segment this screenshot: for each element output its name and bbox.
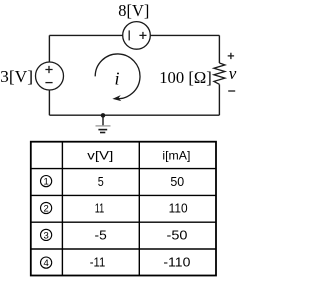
row marker circled 1 [41,176,52,188]
table column divider 1 [61,142,63,276]
table outer border [31,142,216,276]
svg-text:5: 5 [98,174,104,189]
label 3[V] [0,67,33,86]
svg-text:-110: -110 [163,254,190,269]
svg-text:-50: -50 [167,228,188,243]
polarity minus (resistor) [228,90,235,92]
svg-text:11: 11 [95,201,105,216]
cell i row2 value 110 [169,201,188,216]
table row divider 2 [31,194,217,196]
svg-text:1: 1 [43,177,48,188]
svg-text:4: 4 [43,258,48,269]
table row divider 1 [31,168,217,170]
wire right lower segment [218,84,220,115]
cell i row1 value 50 [170,174,184,189]
cell i row3 value -50 [167,228,188,243]
table row divider 4 [31,248,217,250]
wire bottom segment [49,114,219,116]
svg-text:3[V]: 3[V] [0,67,33,86]
svg-text:110: 110 [169,201,188,216]
cell v row1 value 5 [98,174,104,189]
svg-text:-5: -5 [95,228,107,243]
wire top-left segment [49,34,122,36]
svg-text:3: 3 [43,230,48,241]
table header i[mA] [162,149,190,163]
svg-text:100 [Ω]: 100 [Ω] [159,68,212,87]
svg-text:i[mA]: i[mA] [162,149,190,163]
polarity plus (resistor) [228,53,234,59]
ground [96,115,111,132]
current loop arrow i [95,54,140,101]
svg-text:v[V]: v[V] [87,149,113,163]
voltage source 3[V] (left) [36,62,64,90]
table column divider 2 [138,142,140,276]
resistor R 100[ohm] [214,63,225,84]
svg-text:v: v [229,64,237,83]
cell v row4 value -11 [90,254,106,269]
table row divider 3 [31,221,217,223]
row marker circled 3 [41,229,52,241]
svg-text:8[V]: 8[V] [118,1,149,20]
label 8[V] [118,1,149,20]
label 100[ohm] [159,68,212,87]
label v (resistor voltage) [229,64,237,83]
wire right upper segment [218,35,220,63]
label i (loop current) [114,69,119,89]
wire left upper segment [48,35,50,62]
cell v row2 value 11 [95,201,105,216]
cell v row3 value -5 [95,228,107,243]
ground junction dot [101,113,106,118]
wire left lower segment [48,90,50,115]
row marker circled 4 [41,257,52,269]
svg-text:i: i [114,69,119,89]
cell i row4 value -110 [163,254,190,269]
table header v[V] [87,149,113,163]
wire top-right segment [150,34,219,36]
svg-text:-11: -11 [90,254,106,269]
row marker circled 2 [41,202,52,214]
voltage source 8[V] (top) [123,22,151,50]
svg-text:50: 50 [170,174,184,189]
svg-text:2: 2 [43,203,48,214]
